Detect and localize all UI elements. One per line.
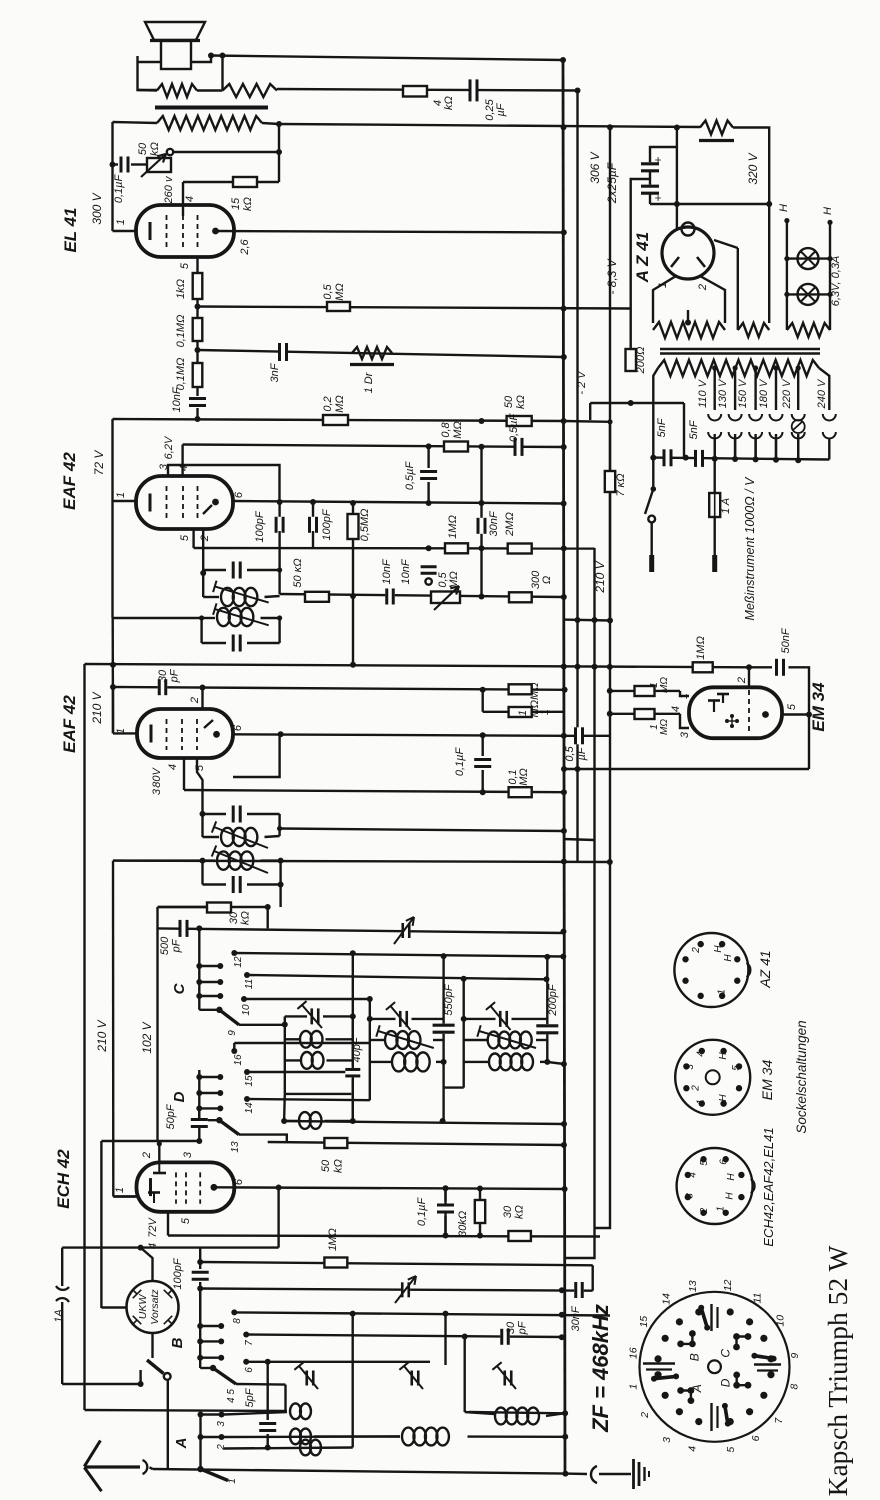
svg-text:A Z 41: A Z 41: [633, 232, 652, 283]
svg-text:1: 1: [696, 1099, 707, 1105]
svg-text:3: 3: [661, 1437, 673, 1443]
node EM34 target dot: [762, 711, 769, 718]
label 0.2M: [322, 395, 346, 413]
svg-text:1: 1: [227, 1478, 238, 1484]
wire IFT1 right v: [277, 567, 282, 594]
node y814: [200, 811, 206, 817]
wire band A3 line: [224, 1412, 287, 1415]
capacitor IFT1 top: [203, 562, 279, 579]
node primary-right: [276, 121, 282, 127]
node x630 y403: [628, 400, 634, 406]
label 0.5uF b: [508, 413, 520, 443]
wire pin3 stub y1141: [101, 1140, 199, 1142]
resistor 30k v: [475, 1189, 485, 1236]
wire EL41 plate line y231: [215, 231, 563, 232]
label 7k: [615, 473, 627, 496]
label ECH42 pin2: [141, 1152, 153, 1159]
label EM34: [809, 682, 828, 732]
wire IFT2b leads: [113, 859, 281, 861]
node x610 y714: [607, 711, 613, 717]
tube EM34: [689, 687, 782, 738]
svg-text:5: 5: [179, 262, 191, 269]
svg-text:50 κΩ: 50 κΩ: [292, 558, 304, 587]
node y735 dots: [278, 731, 567, 739]
wire EM34 pin1 line y691: [610, 690, 680, 692]
label 30k h: [502, 1205, 526, 1219]
node x610 y127: [607, 124, 613, 130]
capacitor IFT1 bottom: [202, 635, 280, 652]
svg-text:80V: 80V: [151, 767, 163, 788]
svg-text:EAF 42: EAF 42: [60, 695, 79, 753]
tube AZ41 envelope: [662, 223, 714, 280]
wire HT2 bus line y665: [85, 664, 750, 667]
svg-text:50: 50: [503, 395, 515, 408]
label A1: [227, 1478, 238, 1484]
capacitor 10nF inline: [385, 589, 395, 605]
svg-text:30: 30: [502, 1205, 514, 1218]
coil band A3: [290, 1403, 311, 1419]
svg-text:D: D: [171, 1091, 188, 1102]
label pin 2,6: [239, 238, 251, 255]
wire EAF42a pin1: [113, 500, 137, 502]
wire EM34 pin3 line y714: [610, 713, 680, 715]
tube EAF42a diode: [203, 505, 212, 514]
svg-text:0,8: 0,8: [440, 421, 452, 437]
tube ECH42 g bar: [153, 1162, 166, 1173]
node g3 x463 mid: [461, 1016, 467, 1022]
svg-text:2: 2: [199, 535, 211, 542]
label 1M osc: [327, 1228, 339, 1251]
svg-text:102 V: 102 V: [140, 1021, 154, 1053]
label 0.1M demod: [507, 768, 530, 786]
node y1248 dots: [138, 1245, 144, 1251]
svg-text:4: 4: [687, 1172, 698, 1178]
wire bus vertical x594: [565, 548, 595, 1258]
svg-text:210 V: 210 V: [95, 1019, 109, 1052]
resistor 50k screen: [507, 416, 532, 426]
wire primary left: [653, 368, 658, 458]
svg-text:9: 9: [789, 1353, 801, 1359]
wire vertical x62 b: [61, 1302, 63, 1384]
tube EAF42b: [137, 709, 233, 758]
svg-text:MΩ: MΩ: [448, 571, 460, 589]
svg-text:1: 1: [657, 282, 669, 288]
label D15: [244, 1075, 255, 1087]
wire mixer line y907: [158, 907, 268, 928]
choke 1Dr: [350, 347, 394, 365]
coil IFT1 primary: [213, 581, 269, 607]
node x610 y691: [607, 688, 613, 694]
svg-text:EL 41: EL 41: [61, 207, 80, 252]
node y548 dots: [426, 545, 485, 551]
wire 100pF feet: [280, 546, 313, 570]
svg-text:4: 4: [670, 706, 682, 712]
label 1M pair d: [649, 719, 670, 735]
svg-text:30kΩ: 30kΩ: [457, 1211, 469, 1237]
label H right: [822, 207, 834, 225]
voltage selector taps: [708, 365, 805, 458]
wire cap1 link: [650, 147, 677, 163]
svg-text:5: 5: [699, 1160, 710, 1166]
svg-text:210 V: 210 V: [90, 691, 104, 724]
label EM34 pin1: [678, 693, 690, 699]
socket AZ41: [674, 933, 750, 1007]
wire EM34 pin5: [782, 713, 809, 715]
connector ground coupling: [591, 1466, 597, 1483]
label sECH pins: [684, 1159, 736, 1215]
label 1A fuse: [53, 1309, 65, 1322]
node EAF42b plate: [213, 731, 220, 738]
svg-text:1: 1: [517, 710, 529, 716]
switch bank D: [171, 1048, 250, 1135]
svg-text:3: 3: [216, 1421, 227, 1427]
svg-text:2: 2: [690, 1085, 701, 1092]
svg-text:3: 3: [151, 788, 163, 795]
label EAF42a pin1: [115, 492, 127, 498]
node bus y1145: [561, 1142, 567, 1148]
node x610 y620: [575, 617, 614, 624]
tube AZ41 anodes: [671, 257, 705, 267]
capacitor 5pF: [259, 1422, 276, 1432]
label 1k: [175, 279, 187, 299]
svg-text:16: 16: [627, 1347, 639, 1359]
label 220V: [781, 378, 793, 409]
capacitor 200pF: [536, 1024, 558, 1034]
wire speaker right lead: [221, 56, 223, 91]
label socket AZ41: [757, 950, 773, 988]
coil g2 a: [370, 1025, 444, 1049]
voltage selector 240V tap: [823, 414, 836, 460]
svg-text:1 Dr: 1 Dr: [363, 371, 375, 393]
wire g1 left v: [284, 1016, 286, 1094]
svg-text:5: 5: [725, 1447, 737, 1453]
node bus y1064: [561, 1061, 567, 1067]
wire bus vertical x577: [576, 90, 578, 862]
node 5pF bottom: [265, 1445, 271, 1451]
wire ECH42 pin2: [157, 1141, 162, 1162]
capacitor 0.5uF bus: [574, 727, 584, 744]
svg-text:H: H: [778, 204, 790, 212]
capacitor 30nF osc: [574, 1282, 584, 1298]
svg-text:50pF: 50pF: [165, 1103, 177, 1129]
node y928 dots: [196, 925, 566, 956]
svg-text:6: 6: [233, 491, 245, 498]
capacitor 0.1uF osc: [437, 1188, 454, 1235]
coil band big: [402, 1428, 449, 1446]
svg-text:0,5µF: 0,5µF: [508, 413, 520, 443]
label 72V: [92, 450, 106, 476]
label EAF42b pin6: [232, 724, 244, 731]
wire IFT2 line y618: [113, 617, 202, 619]
label 300R: [530, 570, 553, 589]
label D16: [233, 1054, 244, 1066]
node bus y232: [561, 229, 567, 235]
wire AVC line y548: [194, 547, 595, 550]
wire vertical x157: [156, 907, 158, 1141]
svg-text:AZ 41: AZ 41: [757, 950, 773, 988]
node x677 y127: [674, 125, 680, 131]
node y447 dots: [426, 443, 485, 449]
capacitor 5nF a: [663, 449, 673, 466]
wire 550pF vertical: [442, 956, 444, 1121]
node g3 x463 top: [461, 976, 467, 982]
node y688 x202: [200, 685, 206, 691]
wire IFT1b right v: [278, 618, 280, 643]
trimmer on 500pF line: [394, 917, 414, 944]
svg-text:2: 2: [736, 677, 748, 684]
svg-text:30: 30: [505, 1321, 517, 1334]
svg-text:8: 8: [232, 1318, 243, 1324]
svg-text:MΩ: MΩ: [334, 283, 346, 301]
wire UKW top lead: [141, 1248, 153, 1281]
svg-text:1: 1: [539, 709, 551, 715]
resistor 0.1M a: [193, 318, 203, 341]
wire anode choke line y352: [197, 350, 563, 357]
wire band A2 coil line y1436: [224, 1435, 400, 1438]
label H left: [778, 204, 790, 223]
switch mains: [645, 458, 656, 572]
svg-text:180 V: 180 V: [758, 378, 770, 408]
wire vertical x279 top: [278, 124, 280, 182]
label 210V c: [95, 1019, 109, 1052]
node y1121 dots: [281, 1118, 567, 1127]
svg-text:0,5µF: 0,5µF: [404, 461, 416, 491]
node x112 y164: [110, 162, 116, 168]
wire vertical x352 a: [352, 953, 354, 1121]
svg-text:kΩ: kΩ: [240, 911, 252, 925]
label ECH42 pin6: [233, 1178, 245, 1185]
svg-text:300 V: 300 V: [90, 192, 104, 224]
capacitor 2x25uF b: [641, 185, 665, 202]
wire EAF42a pin3 loop: [168, 465, 280, 502]
coil band A2: [290, 1429, 311, 1445]
svg-text:50: 50: [137, 142, 149, 155]
label 50nF: [780, 627, 792, 653]
svg-text:30: 30: [228, 911, 240, 924]
label 10nF b1: [381, 558, 393, 584]
capacitor 50nF: [775, 659, 785, 676]
node y861 dots: [200, 858, 284, 864]
svg-text:2: 2: [639, 1412, 651, 1419]
label AZ41 pin2: [697, 284, 709, 291]
label rs A: [690, 1384, 704, 1393]
wire primary-right feed y124: [279, 124, 700, 127]
label 1Dr: [363, 371, 375, 393]
svg-text:0,2: 0,2: [322, 396, 334, 411]
label 100pF a: [254, 510, 266, 542]
coil g3 b: [489, 1054, 533, 1071]
connector 1A fuse: [56, 1286, 69, 1302]
label 210V b: [90, 691, 104, 724]
svg-text:5nF: 5nF: [656, 417, 668, 437]
node ECH42 plate: [211, 1184, 218, 1191]
tube EL41: [136, 205, 234, 257]
svg-text:16: 16: [233, 1054, 244, 1066]
wire 50k line y1143: [268, 1142, 564, 1145]
wire 30nF link x592: [592, 1265, 594, 1290]
wire EM34 grid line y712: [483, 711, 565, 713]
wire EAF42 g2 line y445: [183, 445, 563, 448]
wire antenna stub: [150, 1467, 153, 1469]
label Sockelschaltungen: [794, 1020, 809, 1133]
resistor 300R: [509, 592, 532, 602]
node y1188 dots: [276, 1185, 568, 1193]
trimmer g1: [297, 1001, 322, 1028]
svg-text:240 V: 240 V: [816, 378, 828, 409]
wire g3 b leads: [464, 1061, 548, 1063]
svg-text:5: 5: [179, 534, 191, 541]
label EAF42a pin5: [179, 534, 191, 541]
wire EM34 pin3 jog: [680, 714, 689, 728]
wire 5pF line y1447: [224, 1448, 353, 1449]
wire 1M pair link: [482, 690, 484, 712]
svg-text:12: 12: [722, 1279, 734, 1291]
svg-text:1MΩ: 1MΩ: [695, 636, 707, 660]
svg-text:kΩ: kΩ: [149, 142, 161, 156]
node 5pF top: [265, 1359, 271, 1365]
capacitor 50pF: [191, 1118, 208, 1128]
label 0.1uF osc: [416, 1197, 428, 1227]
svg-text:6: 6: [718, 1159, 729, 1165]
wire line y204: [650, 203, 769, 205]
coil IFT2 primary: [212, 821, 268, 848]
wire EAF42a pin2: [202, 529, 204, 573]
switch bank C: [171, 928, 250, 1024]
wire 200pF vertical: [544, 957, 550, 1062]
resistor 50k osc: [324, 1138, 347, 1148]
svg-text:13: 13: [687, 1280, 699, 1292]
resistor field choke: [699, 121, 734, 141]
svg-text:C: C: [718, 1349, 732, 1358]
wire chain d: [196, 387, 198, 396]
wire band line 6 y1362: [246, 1361, 430, 1363]
wire vertical x445 b: [444, 1314, 446, 1365]
svg-text:µF: µF: [495, 102, 507, 116]
svg-text:3: 3: [684, 1193, 695, 1199]
svg-text:2: 2: [189, 697, 201, 704]
svg-text:11: 11: [244, 979, 255, 989]
label 300V: [90, 192, 104, 224]
svg-text:Meßinstrument 1000Ω / V: Meßinstrument 1000Ω / V: [743, 476, 757, 621]
svg-text:10nF: 10nF: [381, 558, 393, 584]
label 1M pair c: [649, 677, 670, 693]
label C9: [227, 1030, 238, 1036]
node y907: [265, 904, 271, 910]
label 0.1M a: [175, 315, 187, 348]
resistor 0.1M b: [193, 363, 203, 387]
wire C arm out: [239, 1024, 285, 1026]
wire 1k to node: [196, 299, 198, 307]
wire band line 8 y1313: [234, 1312, 610, 1315]
label ZF: [588, 1304, 613, 1433]
node UKW sw: [138, 1370, 144, 1387]
coil g1 a: [300, 1031, 322, 1048]
tube EM34 internals: [708, 694, 739, 728]
label 30nF: [488, 510, 500, 536]
wire EL41 grid lead: [182, 182, 184, 216]
resistor 1M em34grid a: [509, 684, 532, 694]
label sEM pins: [685, 1051, 742, 1105]
svg-text:9: 9: [227, 1030, 238, 1036]
speaker LS: [145, 22, 205, 69]
label pin1 EL41: [115, 219, 127, 225]
label 50k osc: [320, 1159, 345, 1173]
resistor output primary winding: [157, 116, 262, 130]
node y792 dots: [480, 789, 486, 795]
svg-text:Sockelschaltungen: Sockelschaltungen: [794, 1020, 809, 1133]
node bus extra dots: [561, 306, 567, 865]
wire diode load line y597: [280, 594, 563, 597]
capacitor 30pF: [158, 679, 168, 695]
svg-text:110 V: 110 V: [697, 378, 709, 408]
wire speaker top line: [138, 56, 158, 90]
coil g2 b: [392, 1052, 430, 1071]
potentiometer 50k P1: [141, 154, 171, 177]
resistor 1M avc: [445, 543, 468, 553]
svg-text:0,1MΩ: 0,1MΩ: [175, 358, 187, 391]
resistor output secondary winding 2: [223, 84, 278, 97]
transformer core mains: [660, 349, 820, 354]
wire band line 10 y998: [244, 998, 371, 1000]
wire UKW left lead: [101, 1306, 126, 1308]
wire g1 right v: [352, 1016, 354, 1121]
label 30k mixer: [228, 911, 252, 925]
lamp La2: [784, 284, 832, 305]
svg-text:6: 6: [750, 1435, 762, 1441]
potentiometer 0.5M: [431, 586, 460, 610]
label 2M: [504, 512, 516, 537]
svg-text:ECH 42: ECH 42: [54, 1149, 73, 1209]
node g2 left: [367, 1016, 373, 1022]
label Messinstrument: [743, 476, 757, 621]
wire mains drop x590: [589, 403, 591, 420]
node y884: [278, 882, 284, 888]
svg-text:kΩ: kΩ: [443, 96, 455, 110]
svg-text:4 5: 4 5: [226, 1389, 237, 1403]
svg-text:1MΩ: 1MΩ: [447, 515, 459, 539]
svg-text:10: 10: [241, 1004, 252, 1016]
label pin5 EL41: [179, 262, 191, 269]
label EM34 pin2: [736, 677, 748, 684]
svg-text:100pF: 100pF: [172, 1257, 184, 1289]
antenna ANT: [84, 1441, 147, 1492]
transformer core T-output: [155, 106, 268, 110]
svg-text:MΩ: MΩ: [327, 1228, 339, 1246]
label pin4 EL41: [184, 196, 196, 202]
svg-text:6: 6: [233, 1178, 245, 1185]
labels rotary numbers: [627, 1279, 801, 1452]
svg-text:H: H: [718, 1094, 729, 1102]
label 72V4: [147, 1217, 159, 1250]
label 0.1M b: [175, 358, 187, 391]
node y350: [195, 347, 201, 353]
svg-text:5nF: 5nF: [688, 419, 700, 439]
node x809 y714: [806, 712, 812, 718]
label 1A: [720, 498, 732, 514]
label 5nF a: [656, 417, 668, 437]
svg-text:ECH42,EAF42,EL41: ECH42,EAF42,EL41: [761, 1127, 776, 1246]
label 210V right: [593, 560, 607, 593]
label 0.5M top: [322, 283, 346, 301]
svg-text:ZF = 468kHz: ZF = 468kHz: [588, 1304, 613, 1433]
wire speaker line to bus: [211, 56, 563, 61]
coil g1 b: [301, 1052, 323, 1069]
svg-text:2: 2: [141, 1152, 153, 1159]
label 150V: [737, 378, 749, 408]
svg-text:EM 34: EM 34: [809, 682, 828, 732]
wire y840 stub: [563, 839, 595, 840]
svg-text:5: 5: [180, 1217, 192, 1224]
